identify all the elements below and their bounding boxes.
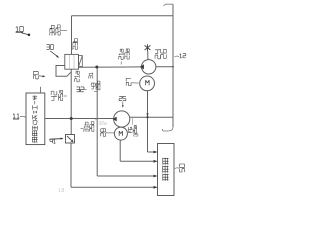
label 26	[161, 49, 167, 58]
wire below valve vertical	[70, 69, 72, 135]
label 10 underline	[16, 31, 23, 33]
label 11 tilde	[20, 115, 26, 118]
wire crossing nub	[95, 118, 97, 120]
wire mid vertical line 97	[96, 67, 98, 176]
relief valve 41 square	[66, 135, 75, 144]
motor M1 letter	[146, 80, 149, 85]
wire right vertical line 12	[172, 4, 174, 127]
control box 50	[158, 144, 175, 196]
label 23a	[125, 49, 129, 59]
label 50 tilde	[175, 167, 180, 170]
label 41	[50, 139, 55, 143]
wire pump1 left horizontal	[79, 66, 142, 68]
label FG	[128, 127, 132, 132]
actuator top stub	[40, 87, 42, 93]
motor M2 circle	[114, 127, 127, 140]
label 11 underline	[13, 118, 19, 120]
arrowhead into control box line 1	[154, 151, 158, 154]
label 25 small	[134, 133, 138, 136]
label 43	[91, 83, 95, 89]
label 22b	[56, 25, 60, 35]
label 12 tilde	[175, 55, 180, 58]
wire main horizontal from actuator	[45, 118, 114, 120]
label 22b dash	[61, 29, 67, 31]
label 25a mid	[58, 90, 62, 100]
junction node D	[172, 66, 174, 68]
arrowhead M1 signal down	[146, 113, 148, 116]
label 32 dash	[84, 89, 87, 91]
valve 30 box	[65, 54, 79, 69]
label 24	[155, 50, 161, 59]
arrowhead into control box line 4	[154, 186, 158, 189]
label 32a faint	[99, 122, 106, 125]
label 25b lower	[90, 122, 94, 132]
wire M2 signal vertical	[119, 140, 121, 161]
label 25 above pump2	[119, 96, 126, 100]
wire top horizontal line 23b	[72, 15, 174, 17]
label 31b	[84, 122, 88, 132]
label 20	[33, 71, 38, 78]
label 21a tick	[120, 62, 122, 65]
label 12	[180, 54, 186, 58]
arrowhead into control box line 3	[154, 175, 158, 178]
label 25 arrow	[122, 102, 124, 107]
pump P2 triangle	[113, 117, 117, 122]
wire M1 signal vertical	[147, 91, 149, 152]
actuator kanji text	[32, 96, 37, 143]
label 31b dash	[81, 128, 84, 130]
label 25a dash	[64, 95, 68, 97]
wire right bottom hook	[162, 127, 173, 131]
pump P1 triangle	[140, 64, 144, 69]
pump P2 circle	[114, 111, 130, 127]
control box kanji text	[163, 158, 169, 181]
arrowhead into control box line 2	[154, 160, 158, 163]
wire pump1 right horizontal	[156, 66, 173, 68]
label 11	[13, 114, 19, 118]
wire relief to bottom corner	[70, 143, 72, 187]
wire bottom horizontal to control box	[71, 186, 157, 188]
label 13 faint	[59, 188, 64, 191]
junction node A	[70, 117, 73, 120]
label 41 overbar arrow	[49, 138, 61, 141]
pump P1 circle	[142, 60, 156, 74]
label 50	[179, 164, 184, 172]
label 30 arrow	[50, 51, 57, 56]
label 21a	[119, 49, 123, 59]
wire M1 signal horizontal	[148, 151, 157, 153]
label 27 dash	[132, 82, 139, 84]
label 32 dark	[76, 87, 83, 92]
label 23b dash	[72, 48, 74, 50]
label 32b	[50, 25, 54, 35]
label 23b	[73, 39, 78, 50]
label 30	[46, 45, 53, 50]
wire pump2 out to right vertical	[130, 116, 173, 118]
wire valve feed vertical	[71, 16, 73, 55]
label 10	[16, 26, 23, 31]
label 42	[51, 91, 57, 100]
label 25b upper dash	[94, 91, 97, 93]
label 28	[101, 129, 106, 136]
junction node C	[146, 116, 148, 118]
wire valve left loop	[56, 66, 71, 77]
motor M2 letter	[119, 131, 122, 136]
wire mid line bottom horizontal	[97, 175, 156, 177]
label 10 arrow	[22, 33, 28, 35]
label 28 dash	[106, 132, 114, 134]
pump P1 asterisk 26	[145, 44, 151, 59]
junction node B	[95, 66, 98, 69]
label 27	[126, 78, 131, 85]
motor M1 circle	[140, 76, 155, 91]
label 31	[89, 73, 93, 79]
label 21 right of valve line	[75, 71, 80, 82]
wire top stub with arrow tick	[164, 4, 174, 6]
actuator box 11	[26, 93, 45, 145]
label FG leader	[131, 118, 133, 125]
label 20 arrow	[39, 75, 44, 78]
label 25b upper	[96, 81, 100, 90]
valve solenoid attachment	[79, 56, 83, 67]
wire M2 signal horizontal	[120, 160, 156, 162]
label 25a right of M2	[133, 126, 137, 134]
